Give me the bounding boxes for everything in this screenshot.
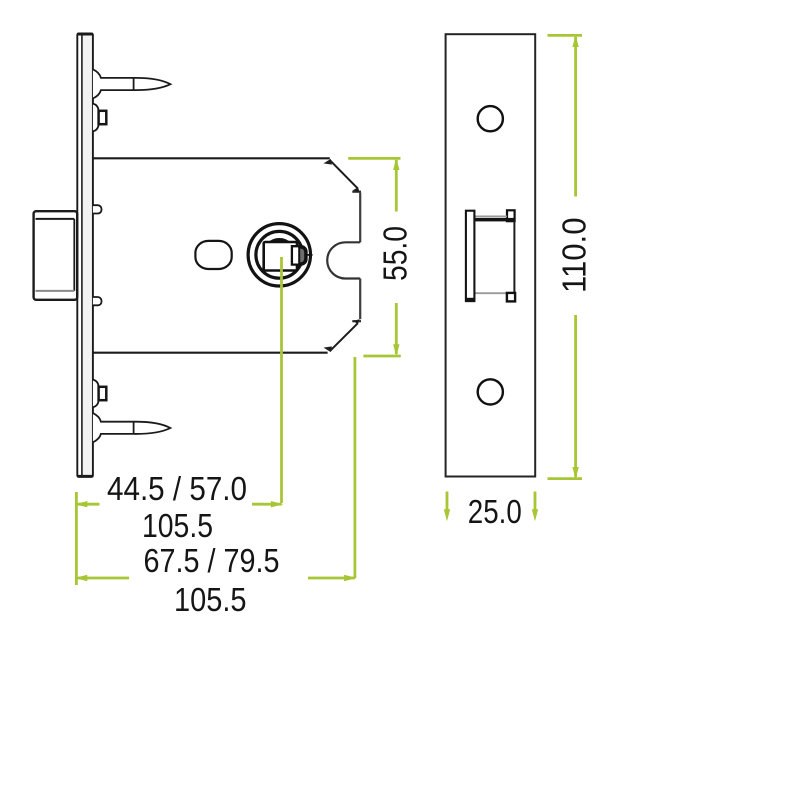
svg-text:105.5: 105.5	[174, 582, 247, 619]
bottom screw	[93, 413, 170, 442]
spindle square hole	[264, 242, 297, 271]
left extension line	[75, 492, 78, 585]
faceplate retaining bumps	[93, 205, 102, 305]
oval hole	[195, 241, 231, 269]
svg-text:105.5: 105.5	[142, 508, 213, 545]
svg-text:110.0: 110.0	[557, 218, 594, 294]
svg-text:44.5 / 57.0: 44.5 / 57.0	[107, 471, 247, 508]
follower clip	[292, 246, 313, 264]
67.5/79.5 line	[76, 577, 129, 580]
svg-text:55.0: 55.0	[378, 226, 415, 281]
bottom screw hole	[478, 379, 503, 404]
dimension 25.0	[447, 492, 535, 514]
spindle follower circles	[248, 224, 310, 286]
bottom fixing lug	[93, 380, 106, 408]
svg-text:25.0: 25.0	[468, 494, 522, 531]
faceplate front view	[446, 34, 536, 476]
body extension line	[353, 357, 356, 578]
top fixing lug	[93, 104, 106, 132]
latch bolt side view	[34, 211, 78, 300]
spindle centre line	[280, 257, 283, 503]
svg-text:67.5 / 79.5: 67.5 / 79.5	[144, 543, 280, 580]
latch body side view outline	[93, 158, 361, 352]
top screw	[93, 69, 170, 98]
dimension 110.0	[548, 35, 583, 478]
44.5/57.0 line	[76, 503, 99, 506]
top screw hole	[478, 106, 503, 131]
dimension 44.5/57.0 and 67.5/79.5 lines	[76, 257, 355, 585]
faceplate side view	[77, 34, 93, 477]
body break marks (corner wedges)	[324, 159, 360, 352]
latch bolt front view	[466, 210, 515, 301]
dimension 55.0	[348, 158, 401, 356]
